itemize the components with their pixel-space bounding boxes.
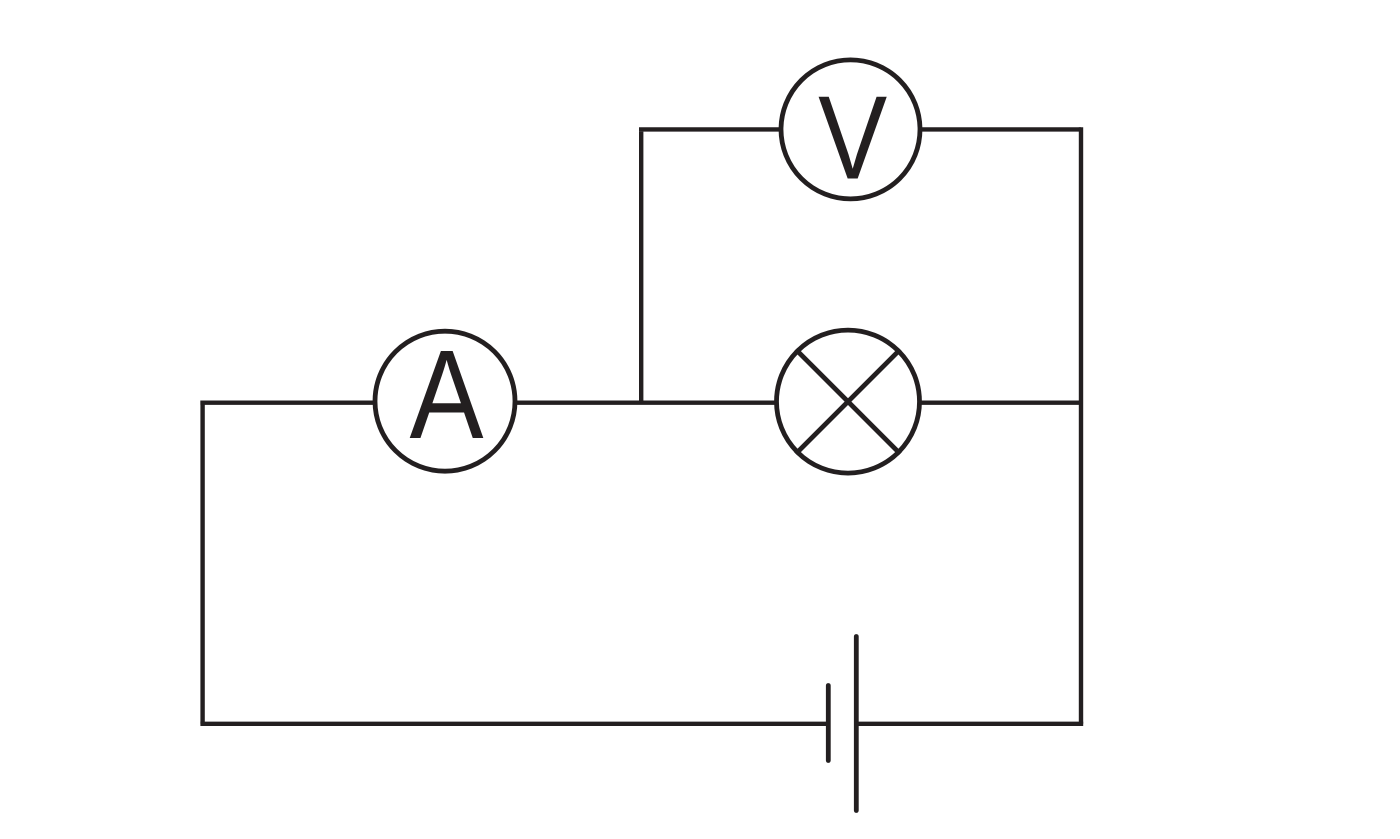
wire: bottom horizontal from left rail to battery negative plate xyxy=(200,722,828,726)
wire: bottom horizontal from battery positive plate to right rail xyxy=(856,722,1083,726)
wire: left vertical rail (ammeter row down to battery row) xyxy=(200,401,204,724)
lamp L1 cross diagonal (top-left to bottom-right) xyxy=(796,349,900,453)
wire: lamp to right rail horizontal xyxy=(918,401,1079,405)
wire: top-left horizontal from left rail to ammeter xyxy=(200,401,376,405)
svg-text:A: A xyxy=(409,326,483,466)
ammeter A1 circle xyxy=(375,331,515,471)
wire: ammeter to lamp horizontal xyxy=(514,401,777,405)
svg-text:V: V xyxy=(818,71,887,204)
wire: voltmeter branch vertical riser xyxy=(639,132,643,403)
lamp L1 circle xyxy=(777,330,920,473)
battery B1 positive plate (long) xyxy=(854,637,859,811)
voltmeter V1 circle xyxy=(781,60,920,199)
wire: right vertical rail xyxy=(1079,127,1083,724)
lamp L1 cross diagonal (bottom-left to top-right) xyxy=(796,349,900,453)
wire: voltmeter branch top horizontal to voltmeter xyxy=(639,127,781,131)
battery B1 negative plate (short) xyxy=(826,686,831,761)
wire: voltmeter to right rail horizontal xyxy=(920,127,1081,131)
